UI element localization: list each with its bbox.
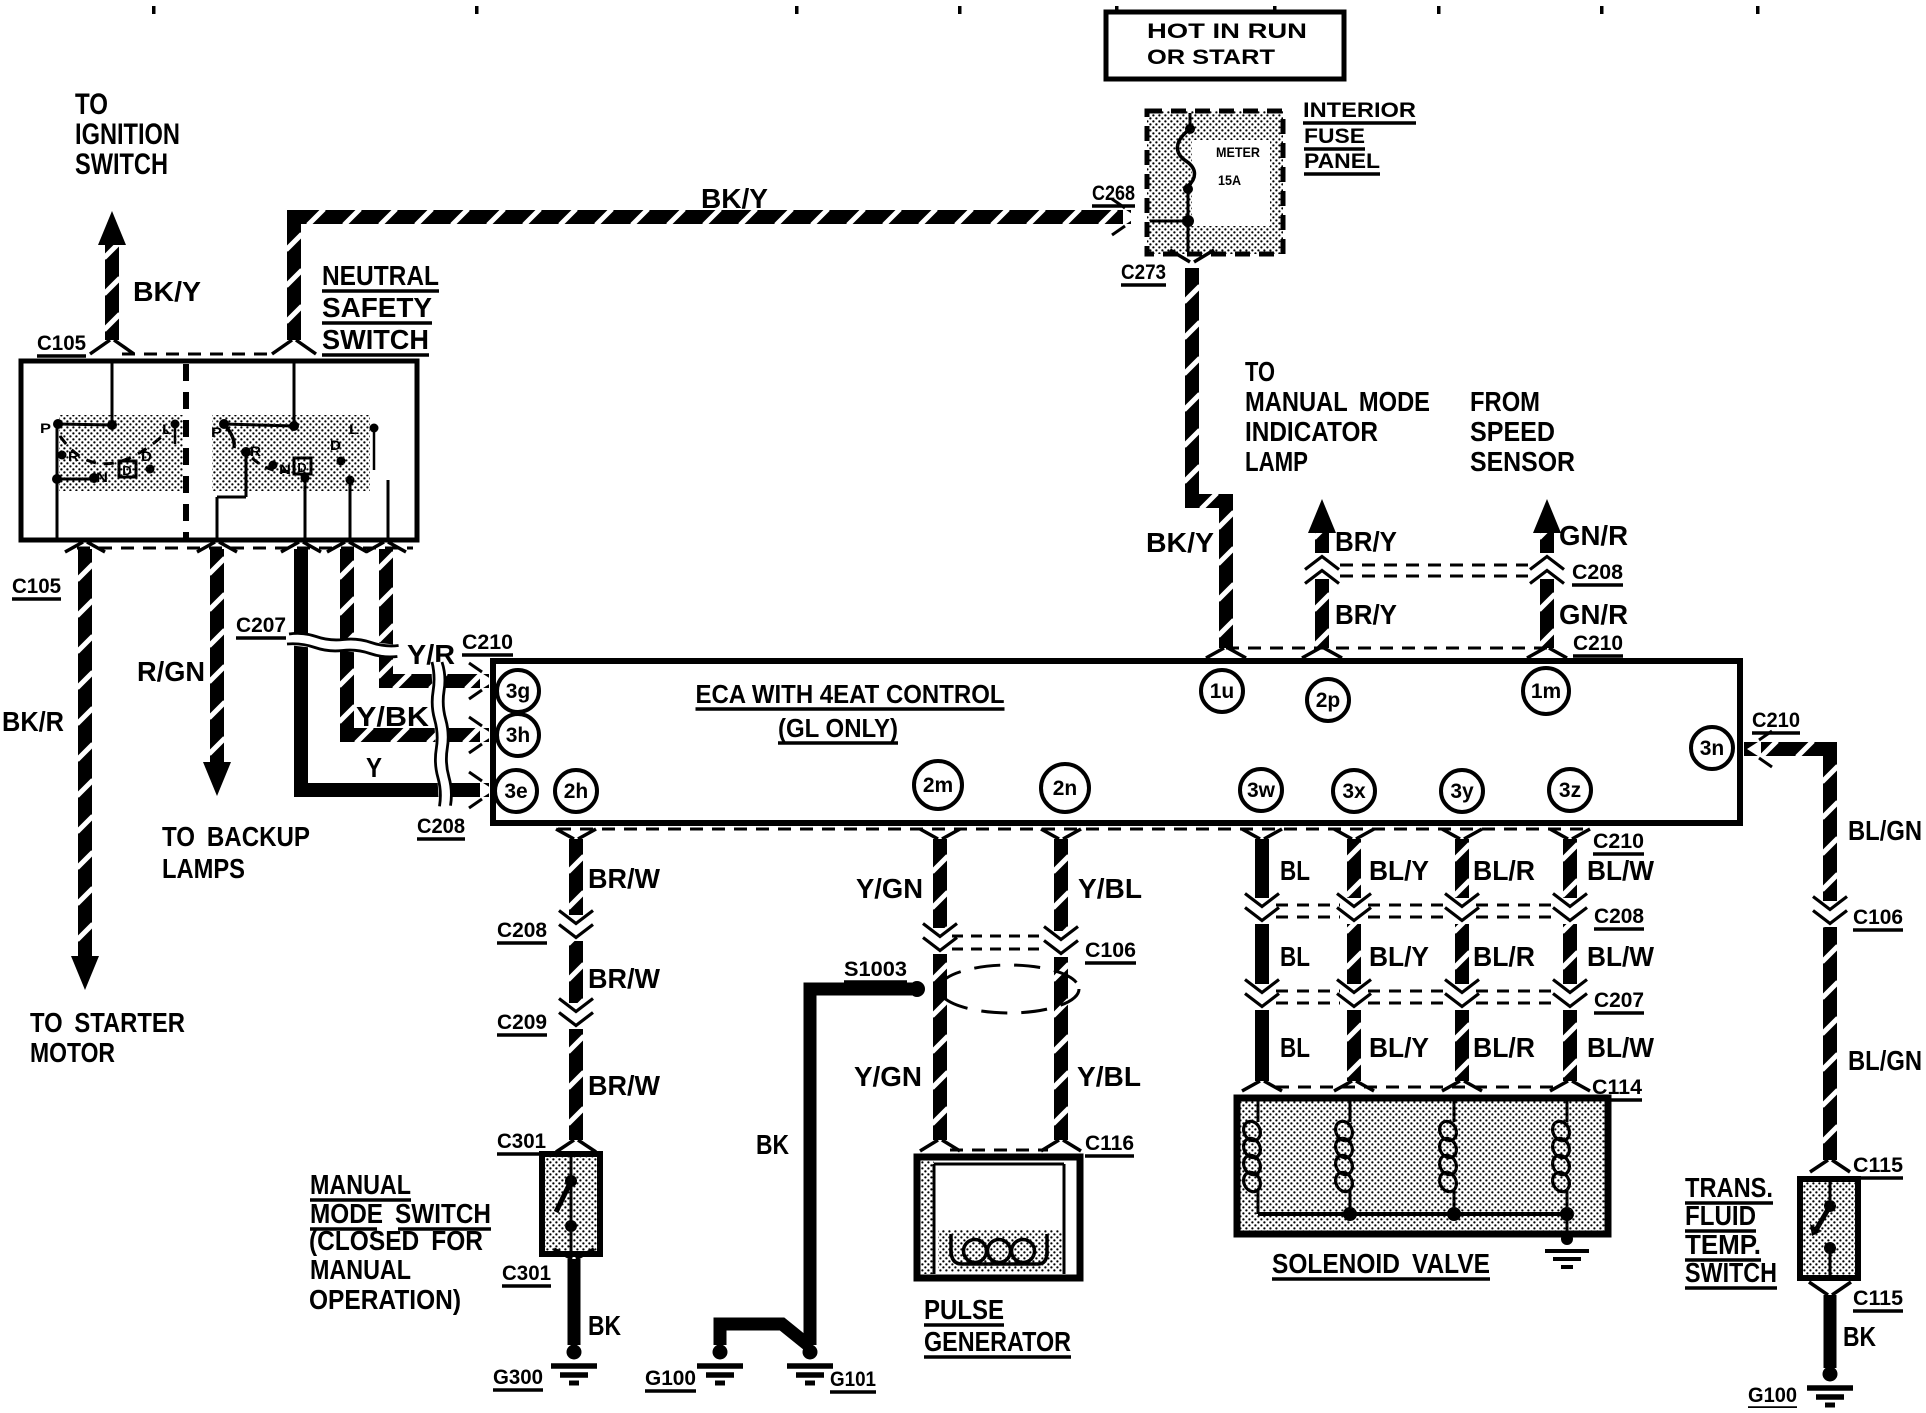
- svg-text:BL/R: BL/R: [1473, 1032, 1535, 1063]
- svg-text:SAFETY: SAFETY: [322, 292, 432, 323]
- svg-text:LAMPS: LAMPS: [162, 853, 245, 884]
- svg-text:C106: C106: [1085, 939, 1136, 962]
- svg-text:S1003: S1003: [844, 958, 907, 981]
- svg-text:TO: TO: [1245, 356, 1275, 387]
- svg-text:(GL ONLY): (GL ONLY): [778, 713, 898, 743]
- svg-text:C207: C207: [1594, 989, 1644, 1012]
- svg-text:2p: 2p: [1316, 689, 1341, 712]
- svg-text:FUSE: FUSE: [1304, 125, 1365, 148]
- svg-text:BL/GN: BL/GN: [1848, 1045, 1922, 1076]
- svg-text:3n: 3n: [1700, 737, 1725, 760]
- svg-text:BR/Y: BR/Y: [1335, 526, 1397, 557]
- svg-text:D: D: [297, 460, 306, 475]
- svg-text:BL/Y: BL/Y: [1369, 941, 1429, 972]
- svg-text:BK: BK: [588, 1310, 621, 1341]
- svg-text:Y/BL: Y/BL: [1077, 1061, 1141, 1092]
- svg-text:G101: G101: [830, 1368, 876, 1391]
- svg-text:3z: 3z: [1559, 779, 1581, 802]
- svg-text:1u: 1u: [1210, 680, 1235, 703]
- svg-text:MANUAL MODE: MANUAL MODE: [1245, 386, 1430, 417]
- svg-text:Y: Y: [366, 752, 382, 783]
- svg-text:C210: C210: [1752, 709, 1800, 732]
- svg-text:LAMP: LAMP: [1245, 446, 1308, 477]
- svg-text:C209: C209: [497, 1011, 547, 1034]
- svg-text:MOTOR: MOTOR: [30, 1037, 115, 1068]
- svg-text:INDICATOR: INDICATOR: [1245, 416, 1378, 447]
- svg-text:GENERATOR: GENERATOR: [924, 1326, 1071, 1357]
- svg-text:3e: 3e: [504, 780, 527, 803]
- svg-text:3y: 3y: [1450, 780, 1474, 803]
- svg-text:BL/R: BL/R: [1473, 941, 1535, 972]
- svg-text:2n: 2n: [1053, 777, 1078, 800]
- svg-text:TRANS.: TRANS.: [1685, 1172, 1773, 1203]
- svg-text:Y/BL: Y/BL: [1078, 873, 1142, 904]
- svg-text:G300: G300: [493, 1366, 543, 1389]
- svg-text:PULSE: PULSE: [924, 1294, 1004, 1325]
- svg-text:TO STARTER: TO STARTER: [30, 1007, 185, 1038]
- svg-text:HOT IN RUN: HOT IN RUN: [1147, 20, 1307, 43]
- svg-text:BL/W: BL/W: [1587, 941, 1655, 972]
- svg-text:NEUTRAL: NEUTRAL: [322, 260, 439, 291]
- svg-text:3h: 3h: [506, 724, 531, 747]
- svg-text:FROM: FROM: [1470, 386, 1540, 417]
- svg-text:C301: C301: [502, 1262, 551, 1285]
- svg-text:(CLOSED FOR: (CLOSED FOR: [309, 1225, 483, 1256]
- svg-text:TO: TO: [75, 88, 108, 121]
- svg-text:SENSOR: SENSOR: [1470, 446, 1575, 477]
- svg-text:D: D: [141, 448, 152, 464]
- svg-text:MANUAL: MANUAL: [310, 1169, 411, 1200]
- svg-text:C210: C210: [462, 631, 513, 654]
- svg-text:C115: C115: [1853, 1287, 1903, 1310]
- svg-text:Y/R: Y/R: [407, 639, 455, 670]
- svg-text:SOLENOID VALVE: SOLENOID VALVE: [1272, 1248, 1490, 1279]
- svg-text:G100: G100: [645, 1367, 696, 1390]
- svg-text:INTERIOR: INTERIOR: [1303, 99, 1416, 122]
- svg-text:FLUID: FLUID: [1685, 1200, 1756, 1231]
- svg-text:N: N: [96, 469, 108, 485]
- svg-text:C208: C208: [417, 815, 465, 838]
- svg-text:C208: C208: [497, 919, 547, 942]
- svg-text:BK: BK: [756, 1129, 789, 1160]
- svg-text:BK: BK: [1843, 1321, 1876, 1352]
- svg-text:C210: C210: [1573, 632, 1623, 655]
- svg-text:L: L: [349, 421, 360, 437]
- svg-text:C273: C273: [1121, 261, 1166, 284]
- svg-text:Y/GN: Y/GN: [854, 1061, 922, 1092]
- svg-text:MANUAL: MANUAL: [310, 1254, 411, 1285]
- svg-text:C116: C116: [1085, 1132, 1134, 1155]
- svg-text:BK/Y: BK/Y: [133, 276, 201, 307]
- svg-text:BR/W: BR/W: [588, 963, 661, 994]
- svg-text:BK/Y: BK/Y: [701, 183, 768, 214]
- svg-text:C106: C106: [1853, 906, 1903, 929]
- svg-text:BR/W: BR/W: [588, 1070, 661, 1101]
- svg-text:TEMP.: TEMP.: [1685, 1229, 1761, 1260]
- svg-text:BL/Y: BL/Y: [1369, 855, 1429, 886]
- svg-text:SWITCH: SWITCH: [322, 324, 429, 355]
- svg-text:BL/R: BL/R: [1473, 855, 1535, 886]
- svg-text:C105: C105: [37, 332, 86, 355]
- svg-text:P: P: [211, 424, 222, 440]
- svg-text:BK/Y: BK/Y: [1146, 527, 1214, 558]
- svg-text:P: P: [40, 420, 51, 436]
- svg-text:C301: C301: [497, 1130, 546, 1153]
- svg-text:BL/W: BL/W: [1587, 855, 1655, 886]
- svg-text:OPERATION): OPERATION): [309, 1284, 461, 1315]
- svg-text:C115: C115: [1853, 1154, 1903, 1177]
- svg-text:C208: C208: [1572, 561, 1623, 584]
- svg-text:L: L: [162, 421, 173, 437]
- svg-text:C268: C268: [1092, 182, 1135, 205]
- svg-text:R: R: [250, 443, 261, 459]
- svg-text:BK/R: BK/R: [2, 706, 64, 737]
- svg-text:BL/Y: BL/Y: [1369, 1032, 1429, 1063]
- svg-text:R/GN: R/GN: [137, 656, 205, 687]
- svg-text:BL: BL: [1280, 941, 1310, 972]
- svg-text:SWITCH: SWITCH: [1685, 1257, 1777, 1288]
- svg-text:3g: 3g: [506, 680, 531, 703]
- svg-text:Y/GN: Y/GN: [856, 873, 923, 904]
- svg-text:C208: C208: [1594, 905, 1644, 928]
- svg-text:Y/BK: Y/BK: [356, 701, 429, 732]
- svg-text:1m: 1m: [1531, 680, 1561, 703]
- svg-text:R: R: [68, 448, 79, 464]
- svg-text:ECA WITH 4EAT CONTROL: ECA WITH 4EAT CONTROL: [696, 679, 1005, 709]
- svg-text:2m: 2m: [923, 774, 953, 797]
- svg-text:BL/GN: BL/GN: [1848, 815, 1922, 846]
- svg-text:OR START: OR START: [1147, 46, 1275, 69]
- svg-text:SPEED: SPEED: [1470, 416, 1555, 447]
- svg-text:D: D: [122, 463, 131, 478]
- svg-text:IGNITION: IGNITION: [75, 118, 180, 151]
- svg-text:D: D: [330, 437, 341, 453]
- svg-text:TO BACKUP: TO BACKUP: [162, 821, 310, 852]
- svg-text:BL: BL: [1280, 855, 1310, 886]
- svg-text:PANEL: PANEL: [1304, 150, 1380, 173]
- svg-text:SWITCH: SWITCH: [75, 148, 168, 181]
- svg-text:METER: METER: [1216, 144, 1260, 160]
- svg-text:15A: 15A: [1218, 172, 1241, 188]
- svg-text:GN/R: GN/R: [1559, 520, 1628, 551]
- svg-text:BL/W: BL/W: [1587, 1032, 1655, 1063]
- svg-text:3x: 3x: [1342, 780, 1366, 803]
- svg-text:BR/W: BR/W: [588, 863, 661, 894]
- svg-text:N: N: [279, 461, 291, 477]
- svg-text:GN/R: GN/R: [1559, 599, 1628, 630]
- svg-text:C105: C105: [12, 575, 61, 598]
- svg-text:BR/Y: BR/Y: [1335, 599, 1397, 630]
- svg-text:C207: C207: [236, 614, 286, 637]
- svg-text:G100: G100: [1748, 1384, 1797, 1407]
- svg-text:C210: C210: [1593, 830, 1644, 853]
- svg-text:3w: 3w: [1247, 779, 1276, 802]
- svg-text:BL: BL: [1280, 1032, 1310, 1063]
- svg-text:2h: 2h: [564, 780, 589, 803]
